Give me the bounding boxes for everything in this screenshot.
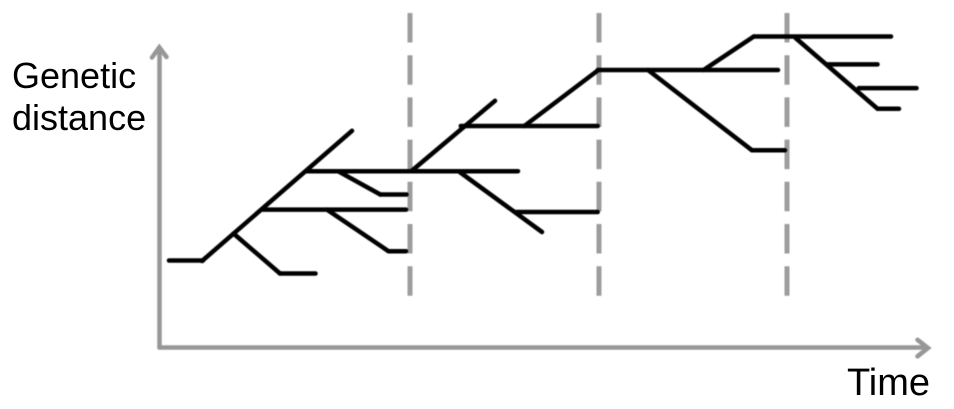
segment 4 tip horizontal [878, 107, 899, 112]
x-axis [160, 340, 929, 357]
branch C sub diagonal [338, 171, 380, 194]
branch B horizontal [262, 207, 407, 212]
branch D rising diagonal (survivor) [524, 71, 597, 127]
segment 3 descending diagonal [648, 70, 752, 150]
dashed divider 3 [785, 13, 790, 298]
branch D horizontal (to divider 2) [461, 124, 598, 129]
segment 3 descending tip horizontal [752, 148, 785, 153]
branch C horizontal (survivor crossing divider 1) [306, 169, 518, 174]
trunk segment 4 top horizontal [754, 34, 891, 39]
segment 4 branch 2 horizontal [859, 86, 917, 91]
trunk segment 3 horizontal [598, 68, 778, 73]
branch B sub tip horizontal [389, 249, 407, 254]
segment 4 descending diagonal [796, 38, 878, 109]
trunk segment 2 [412, 101, 496, 171]
y-axis [152, 47, 167, 347]
branch C sub tip horizontal [380, 192, 406, 197]
branch A tip horizontal [280, 271, 316, 276]
root branch horizontal [169, 258, 203, 263]
segment 4 branch 1 horizontal [828, 62, 878, 67]
trunk segment 1 [202, 131, 352, 261]
x-axis label "Time" [847, 364, 930, 402]
segment 3 rising diagonal (survivor) [704, 37, 754, 71]
segment 2 descending diagonal [459, 172, 542, 233]
branch A diagonal [234, 234, 281, 274]
y-axis label "Genetic distance" [12, 55, 146, 139]
segment 2 descending branch horizontal (to divider 2) [516, 210, 598, 215]
dashed divider 2 [597, 13, 602, 298]
dashed divider 1 [408, 13, 413, 298]
branch B sub diagonal [327, 210, 389, 252]
